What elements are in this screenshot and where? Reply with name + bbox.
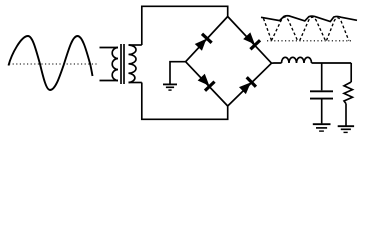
inductor L1 (4 humps) [282,57,312,63]
ground (resistor) [338,126,354,132]
primary winding (3 loops) [112,48,118,81]
secondary winding (4 loops) [129,45,137,83]
edge: left vertex to bottom vertex [186,62,228,106]
core line 1 [120,44,122,84]
edge: left vertex to top vertex [186,17,228,62]
bridge rectifier diamond [186,17,272,107]
diode D1 (top-left edge, pointing to top vertex) [194,34,212,52]
sine baseline (dotted) [9,63,97,65]
sine curve [9,36,93,90]
input AC sine waveform [9,36,98,90]
diode D3 (bottom-left edge, pointing to bottom vertex) [196,73,214,91]
output waveform: rectified half-sine humps (dashed) [264,17,349,40]
output waveform: filtered DC ripple (solid) [261,16,357,22]
wire: secondary top to bridge top vertex [142,6,228,45]
core line 2 [123,44,125,84]
wire: inductor to resistor branch [312,62,352,64]
output waveform: dotted baseline [267,40,352,42]
wire: right vertex to inductor [272,62,282,64]
transformer T1 [100,44,142,84]
wire: node to capacitor [321,63,323,90]
wire: capacitor to ground [321,100,323,124]
secondary top lead [129,44,142,46]
wire: node to resistor [350,63,352,82]
primary top lead [100,47,119,49]
diode D4 (bottom-right edge, pointing to right vertex) [238,77,256,95]
wire: left vertex to ground [170,62,186,84]
wire: secondary bottom to bridge bottom vertex [142,83,228,120]
edge: top vertex to right vertex [228,17,272,64]
diode D2 (top-right edge, pointing to right vertex) [242,31,260,49]
wire: resistor to ground [345,104,347,126]
secondary bottom lead [129,82,142,84]
ground (bridge negative) [163,84,177,90]
primary bottom lead [100,80,119,82]
ground (capacitor) [313,124,331,131]
resistor R1 (load) [344,82,353,104]
edge: bottom vertex to right vertex [228,63,272,106]
capacitor C1 [310,91,333,98]
